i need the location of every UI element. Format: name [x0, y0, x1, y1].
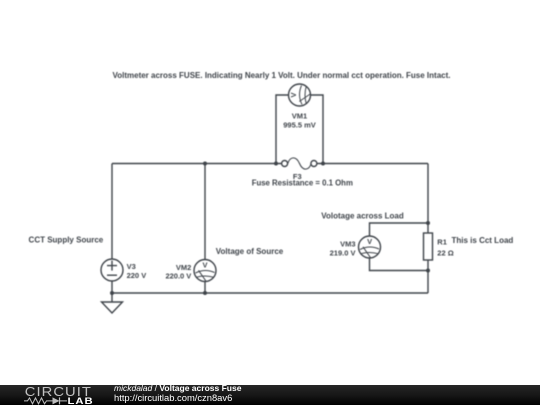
svg-text:This is Cct Load: This is Cct Load	[452, 236, 514, 245]
svg-text:Fuse Resistance = 0.1 Ohm: Fuse Resistance = 0.1 Ohm	[252, 179, 353, 188]
svg-text:V3: V3	[127, 262, 136, 271]
svg-text:995.5 mV: 995.5 mV	[283, 121, 316, 130]
svg-text:LAB: LAB	[68, 396, 94, 405]
svg-text:VM2: VM2	[176, 263, 191, 272]
svg-text:VM1: VM1	[292, 112, 307, 121]
svg-text:219.0 V: 219.0 V	[330, 249, 356, 258]
svg-text:Voltmeter across FUSE. Indicat: Voltmeter across FUSE. Indicating Nearly…	[112, 71, 450, 80]
svg-text:Voltage of Source: Voltage of Source	[216, 247, 284, 256]
svg-text:220.0 V: 220.0 V	[165, 272, 191, 281]
svg-text:R1: R1	[437, 238, 447, 247]
svg-text:VM3: VM3	[340, 240, 355, 249]
svg-text:V: V	[289, 92, 298, 97]
svg-text:Volotage across Load: Volotage across Load	[321, 211, 404, 220]
svg-text:220 V: 220 V	[127, 271, 147, 280]
svg-text:22 Ω: 22 Ω	[437, 249, 453, 258]
svg-text:V: V	[202, 260, 207, 269]
svg-text:V: V	[367, 237, 372, 246]
svg-text:CCT Supply Source: CCT Supply Source	[29, 235, 104, 244]
